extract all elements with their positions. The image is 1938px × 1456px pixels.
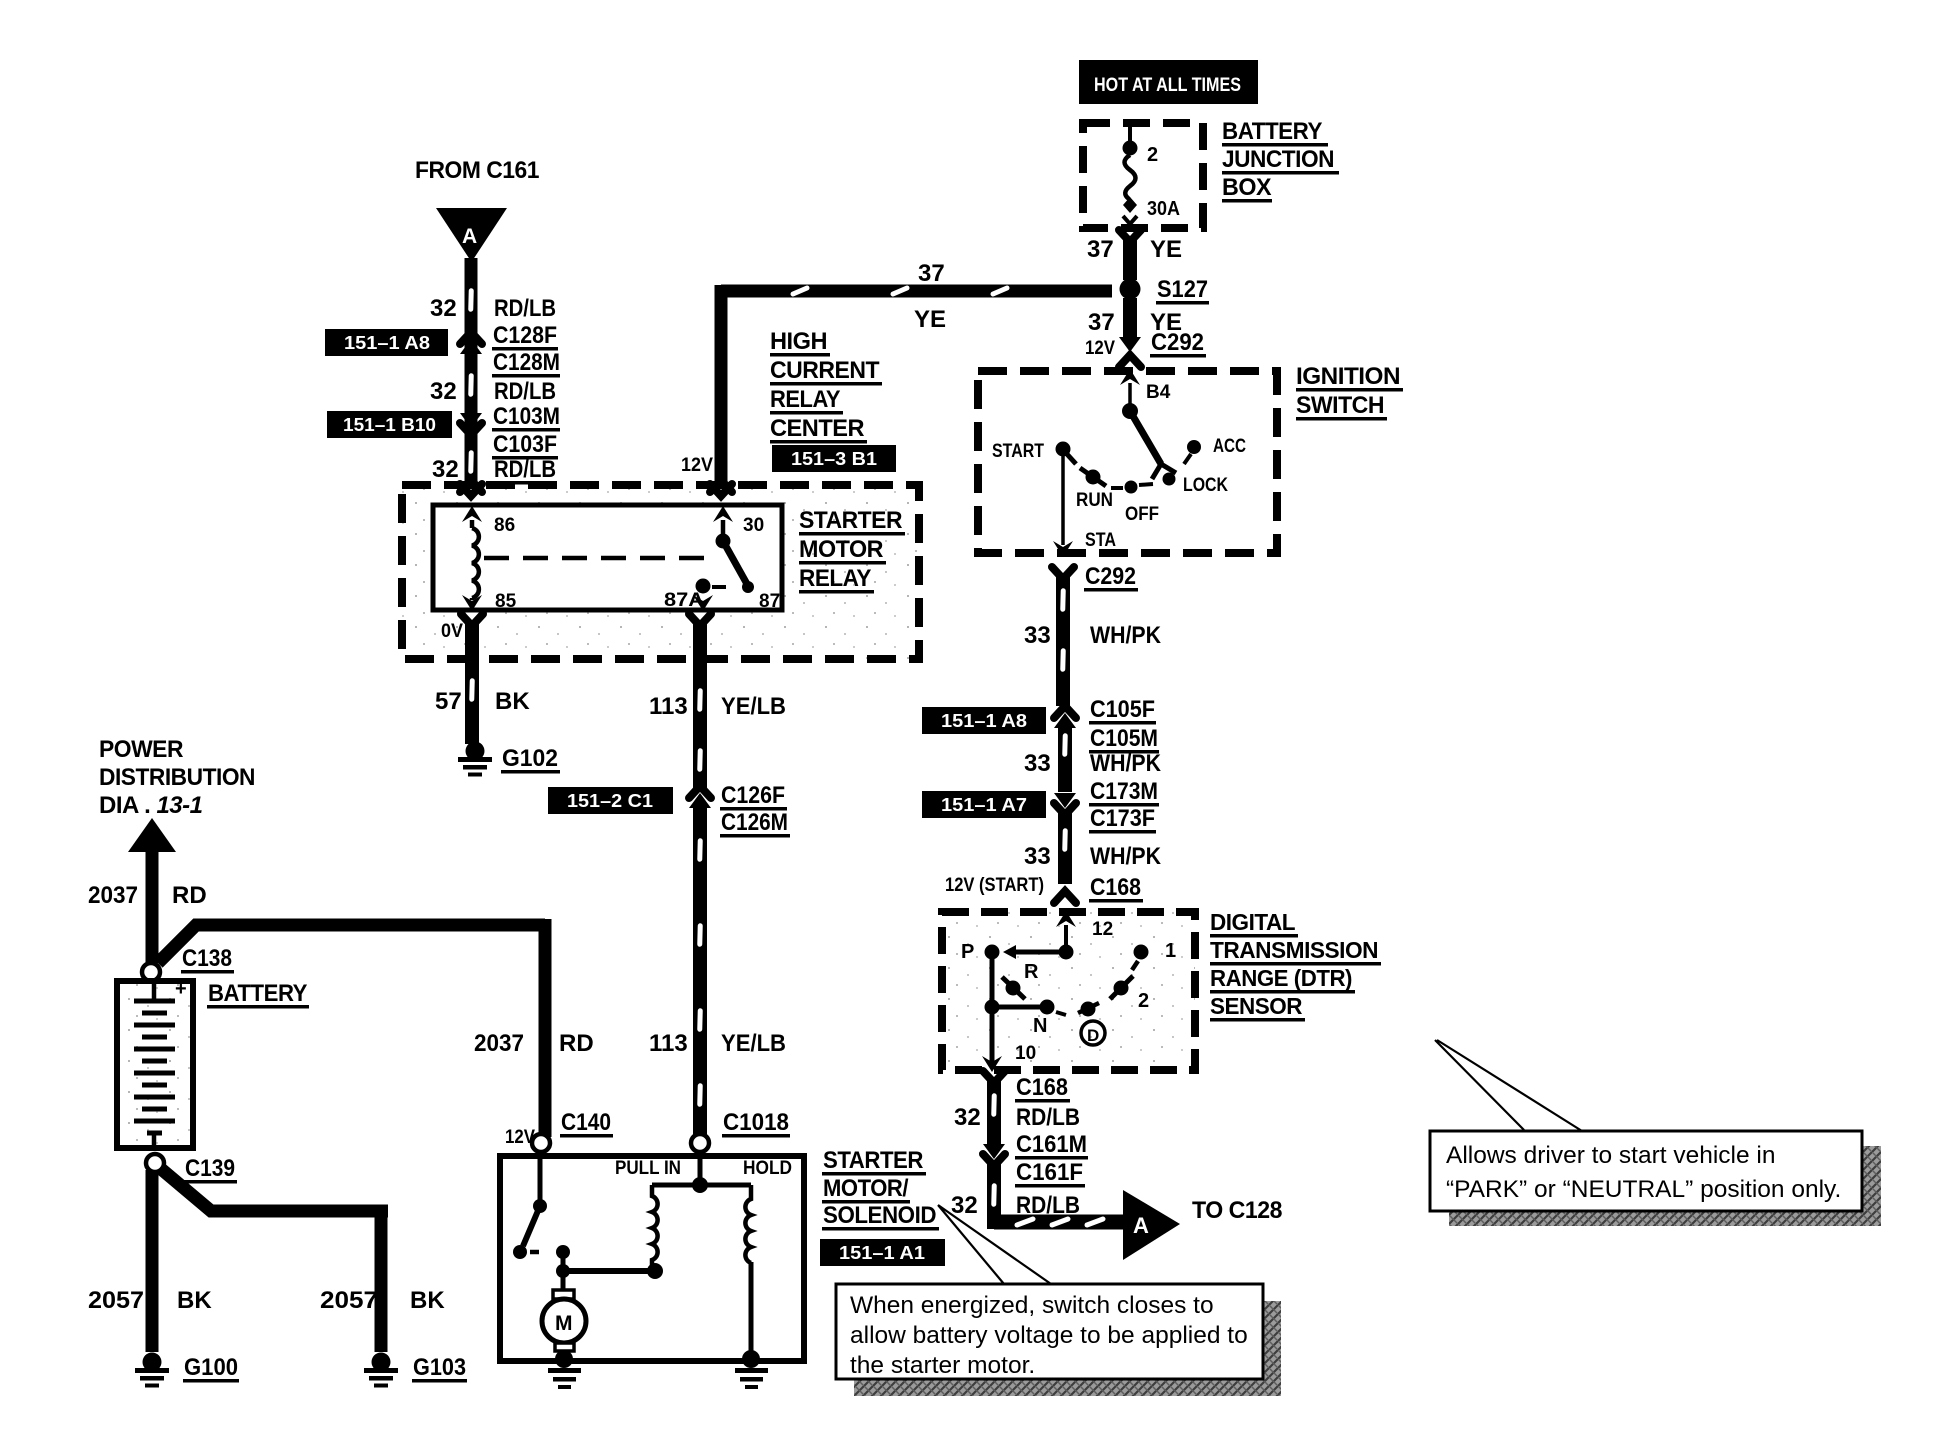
- svg-text:151–1 A7: 151–1 A7: [941, 795, 1027, 815]
- top horizontal + C1018 drop: [652, 1183, 751, 1188]
- svg-text:37: 37: [1087, 236, 1114, 263]
- ACC contact: [1187, 440, 1201, 454]
- svg-text:HOLD: HOLD: [743, 1158, 792, 1179]
- svg-text:30A: 30A: [1147, 198, 1180, 220]
- node C1018: [691, 1134, 709, 1152]
- HOT AT ALL TIMES label box: [1079, 60, 1258, 104]
- connector C173M/C173F: [1054, 793, 1076, 808]
- svg-text:BK: BK: [177, 1287, 212, 1314]
- svg-text:FROM C161: FROM C161: [415, 157, 539, 184]
- svg-text:SWITCH: SWITCH: [1296, 392, 1384, 419]
- callout: allows driver: [1430, 1040, 1881, 1226]
- dashed mech link solenoid: [548, 1251, 556, 1253]
- svg-text:2037: 2037: [474, 1030, 524, 1057]
- svg-text:113: 113: [649, 1030, 688, 1057]
- connector C105F/C105M: [1054, 706, 1076, 718]
- svg-text:STARTER: STARTER: [823, 1147, 923, 1174]
- svg-text:IGNITION: IGNITION: [1296, 363, 1400, 390]
- svg-text:RD/LB: RD/LB: [494, 295, 556, 322]
- svg-text:CURRENT: CURRENT: [770, 357, 880, 384]
- svg-text:C105F: C105F: [1090, 696, 1155, 723]
- ref box 151-1 A7: [922, 791, 1046, 818]
- svg-text:12: 12: [1092, 919, 1113, 940]
- svg-text:allow battery voltage to be ap: allow battery voltage to be applied to: [850, 1322, 1248, 1349]
- svg-text:the starter motor.: the starter motor.: [850, 1352, 1035, 1379]
- svg-text:57: 57: [435, 688, 462, 715]
- svg-text:OFF: OFF: [1125, 504, 1159, 525]
- POWER DISTRIBUTION DIA. 13-1 title: [99, 736, 255, 819]
- ground G103: [364, 1353, 398, 1388]
- svg-text:HIGH: HIGH: [770, 328, 827, 355]
- svg-text:SOLENOID: SOLENOID: [823, 1202, 936, 1229]
- svg-text:BK: BK: [495, 688, 530, 715]
- svg-text:33: 33: [1024, 750, 1051, 777]
- svg-text:BOX: BOX: [1222, 174, 1271, 201]
- HIGH CURRENT RELAY CENTER title: [770, 328, 882, 444]
- wire corner to arrow A: [994, 1215, 1124, 1230]
- arrow up to power distribution: [128, 818, 176, 852]
- ref box 151-2 C1: [548, 787, 673, 814]
- svg-text:G100: G100: [184, 1354, 238, 1381]
- svg-text:113: 113: [649, 693, 688, 720]
- svg-text:32: 32: [430, 295, 457, 322]
- relay switch 30/87/87A: [693, 506, 754, 611]
- svg-text:87: 87: [759, 591, 780, 612]
- svg-text:LOCK: LOCK: [1183, 475, 1228, 496]
- svg-text:33: 33: [1024, 622, 1051, 649]
- solenoid switch: [538, 1152, 543, 1203]
- svg-text:N: N: [1033, 1015, 1047, 1037]
- BATTERY JUNCTION BOX title: [1222, 118, 1339, 203]
- connector node C138: [142, 963, 160, 981]
- svg-text:When energized, switch closes: When energized, switch closes to: [850, 1292, 1214, 1319]
- svg-text:C161M: C161M: [1016, 1131, 1087, 1158]
- svg-text:151–3 B1: 151–3 B1: [791, 449, 877, 469]
- wire triangle to relay: [465, 258, 478, 488]
- svg-text:RD/LB: RD/LB: [1016, 1104, 1080, 1131]
- wire to pull-in junction: [563, 1268, 655, 1274]
- 2 contact: [1114, 981, 1129, 996]
- STARTER MOTOR/SOLENOID title: [822, 1147, 939, 1231]
- DTR pin 12 arrow: [1056, 911, 1076, 927]
- wire 37 YE horizontal to S127: [721, 285, 1112, 298]
- svg-text:BK: BK: [410, 1287, 445, 1314]
- callout: when energized: [836, 1205, 1281, 1396]
- svg-text:151–2 C1: 151–2 C1: [567, 791, 653, 811]
- svg-text:RELAY: RELAY: [770, 386, 840, 413]
- ignition switch dashed box: [978, 371, 1277, 553]
- motor M: [561, 1276, 566, 1291]
- svg-text:C140: C140: [561, 1109, 611, 1136]
- svg-text:STA: STA: [1085, 530, 1116, 551]
- svg-text:DIA . 13-1: DIA . 13-1: [99, 792, 203, 819]
- svg-text:C168: C168: [1090, 874, 1141, 901]
- svg-text:0V: 0V: [441, 621, 463, 642]
- svg-text:START: START: [992, 441, 1044, 462]
- svg-text:C292: C292: [1151, 329, 1204, 356]
- svg-text:MOTOR/: MOTOR/: [823, 1175, 909, 1202]
- ref box 151-3 B1: [772, 445, 896, 472]
- node C140: [532, 1134, 550, 1152]
- svg-text:C138: C138: [182, 945, 232, 972]
- relay inner box: [433, 505, 782, 610]
- connector C292 below ignition: [1052, 567, 1074, 579]
- battery box: [117, 981, 193, 1148]
- svg-text:G102: G102: [502, 745, 558, 772]
- svg-text:10: 10: [1015, 1043, 1036, 1064]
- svg-text:151–1 A8: 151–1 A8: [344, 333, 430, 353]
- svg-text:C173F: C173F: [1090, 805, 1155, 832]
- svg-text:2037: 2037: [88, 882, 138, 909]
- wire 113 YE/LB from relay pin 87A: [689, 614, 711, 626]
- svg-text:12V: 12V: [505, 1127, 535, 1148]
- svg-text:TO C128: TO C128: [1192, 1197, 1282, 1224]
- svg-text:32: 32: [951, 1192, 978, 1219]
- svg-text:12V: 12V: [1085, 338, 1115, 359]
- svg-text:WH/PK: WH/PK: [1090, 622, 1162, 649]
- ignition rotor pivot: [1122, 403, 1138, 419]
- connector C168 below DTR: [983, 1071, 1005, 1083]
- svg-text:D: D: [1087, 1026, 1099, 1045]
- svg-text:G103: G103: [413, 1354, 466, 1381]
- fuse 30A pin 2: [1123, 119, 1138, 224]
- svg-text:C103M: C103M: [493, 403, 560, 430]
- svg-text:1: 1: [1165, 940, 1176, 962]
- ground G102: [458, 742, 492, 777]
- svg-text:C139: C139: [185, 1155, 235, 1182]
- svg-text:30: 30: [743, 515, 764, 536]
- svg-text:C128M: C128M: [493, 349, 560, 376]
- svg-text:YE/LB: YE/LB: [721, 1030, 786, 1057]
- svg-text:87A: 87A: [664, 590, 704, 611]
- relay coil 86/85: [462, 506, 482, 611]
- N contact: [1040, 1000, 1055, 1015]
- svg-text:+: +: [175, 978, 187, 1000]
- svg-text:RD: RD: [559, 1030, 594, 1057]
- svg-text:SENSOR: SENSOR: [1210, 993, 1303, 1019]
- svg-text:32: 32: [430, 378, 457, 405]
- svg-text:86: 86: [494, 515, 515, 536]
- wire junction box to S127: [1119, 230, 1141, 242]
- P down to junction: [990, 952, 995, 1062]
- svg-text:A: A: [1133, 1213, 1149, 1238]
- connector node C139: [146, 1154, 164, 1172]
- svg-text:RD/LB: RD/LB: [494, 378, 556, 405]
- svg-text:DISTRIBUTION: DISTRIBUTION: [99, 764, 255, 791]
- svg-text:JUNCTION: JUNCTION: [1222, 146, 1334, 173]
- svg-text:STARTER: STARTER: [799, 507, 902, 534]
- triangle A (to C128): [1123, 1190, 1180, 1260]
- svg-text:85: 85: [495, 591, 517, 612]
- triangle A (from C161): [436, 208, 507, 262]
- svg-text:YE: YE: [914, 306, 946, 333]
- motor ground bars: [548, 1368, 581, 1389]
- svg-text:C128F: C128F: [493, 322, 557, 349]
- ref box 151-1 A8 (right): [922, 707, 1046, 734]
- ignition blade to LOCK: [1130, 411, 1161, 464]
- svg-text:C126M: C126M: [721, 809, 788, 836]
- svg-text:PULL IN: PULL IN: [615, 1158, 681, 1179]
- connector C126F/C126M: [689, 786, 711, 798]
- svg-text:2: 2: [1147, 144, 1158, 166]
- circled D: [1081, 1021, 1105, 1045]
- splice S127: [1120, 279, 1141, 300]
- svg-text:2057: 2057: [88, 1287, 144, 1314]
- RUN contact: [1086, 470, 1101, 485]
- svg-text:C173M: C173M: [1090, 778, 1158, 805]
- edge connectors at relay top: [460, 480, 482, 496]
- D contact: [1081, 1002, 1096, 1017]
- svg-text:CENTER: CENTER: [770, 415, 864, 442]
- DTR sensor dashed box: [942, 912, 1195, 1070]
- svg-text:B4: B4: [1146, 382, 1171, 403]
- DIGITAL TRANSMISSION RANGE (DTR) SENSOR title: [1210, 909, 1381, 1022]
- svg-text:Allows driver to start vehicle: Allows driver to start vehicle in: [1446, 1142, 1776, 1169]
- ref box 151-1 B10: [327, 411, 452, 438]
- svg-text:TRANSMISSION: TRANSMISSION: [1210, 937, 1378, 963]
- svg-text:32: 32: [954, 1104, 981, 1131]
- svg-text:DIGITAL: DIGITAL: [1210, 909, 1295, 935]
- hold ground bars: [735, 1368, 768, 1389]
- IGNITION SWITCH title: [1296, 363, 1403, 421]
- wire C126M to C1018: [693, 806, 707, 1136]
- wire C138 up-right then to C140: [158, 925, 545, 963]
- svg-text:“PARK” or “NEUTRAL” position o: “PARK” or “NEUTRAL” position only.: [1446, 1176, 1841, 1203]
- svg-text:RD: RD: [172, 882, 207, 909]
- svg-text:C161F: C161F: [1016, 1159, 1083, 1186]
- DTR rotor dot: [1059, 945, 1074, 960]
- svg-text:S127: S127: [1157, 276, 1208, 303]
- svg-text:C126F: C126F: [721, 782, 785, 809]
- pull-in coil: [652, 1185, 658, 1265]
- svg-text:WH/PK: WH/PK: [1090, 750, 1162, 777]
- svg-text:C168: C168: [1016, 1074, 1068, 1101]
- svg-text:151–1 B10: 151–1 B10: [343, 415, 436, 435]
- svg-text:P: P: [961, 941, 974, 963]
- svg-text:2057: 2057: [320, 1287, 378, 1314]
- connector C128F/C128M: [460, 332, 482, 344]
- svg-text:ACC: ACC: [1213, 436, 1246, 457]
- svg-text:RELAY: RELAY: [799, 565, 871, 592]
- svg-text:WH/PK: WH/PK: [1090, 843, 1162, 870]
- LOCK contact: [1163, 473, 1176, 486]
- svg-text:C292: C292: [1085, 563, 1136, 590]
- connector C161M/C161F: [983, 1144, 1005, 1159]
- pin B4 arrow: [1120, 369, 1140, 385]
- line to P with arrow: [1014, 950, 1059, 955]
- wire slashes (texture): [467, 291, 1069, 1204]
- wire 57 BK from relay pin 85: [461, 614, 483, 626]
- hold coil: [745, 1185, 751, 1263]
- svg-text:C1018: C1018: [723, 1109, 789, 1136]
- wires from C139: [146, 1170, 159, 1352]
- STARTER MOTOR RELAY title: [799, 507, 905, 594]
- solenoid box: [500, 1156, 804, 1361]
- starter motor relay outer dashed box: [402, 485, 919, 659]
- svg-text:HOT AT ALL TIMES: HOT AT ALL TIMES: [1094, 75, 1241, 96]
- svg-text:M: M: [555, 1312, 573, 1335]
- svg-text:RANGE (DTR): RANGE (DTR): [1210, 965, 1352, 991]
- svg-text:12V: 12V: [681, 455, 713, 476]
- R contact: [1006, 981, 1021, 996]
- START contact: [1056, 442, 1071, 457]
- svg-text:A: A: [462, 225, 477, 248]
- svg-text:12V (START): 12V (START): [945, 875, 1044, 896]
- 1 contact: [1134, 945, 1149, 960]
- ground G100: [135, 1353, 169, 1388]
- svg-text:YE/LB: YE/LB: [721, 693, 786, 720]
- svg-text:37: 37: [1088, 309, 1115, 336]
- relay mechanical dashed link: [484, 556, 718, 561]
- connector C292 (ignition top): [1119, 337, 1141, 352]
- svg-text:RUN: RUN: [1076, 490, 1113, 511]
- svg-text:32: 32: [432, 456, 459, 483]
- connector C168 (DTR top): [1054, 891, 1076, 903]
- ref box 151-1 A8: [325, 329, 448, 356]
- ref box 151-1 A1: [820, 1239, 945, 1266]
- svg-text:YE: YE: [1150, 236, 1182, 263]
- svg-text:POWER: POWER: [99, 736, 183, 763]
- connector C103M/C103F: [460, 413, 482, 428]
- svg-text:151–1 A8: 151–1 A8: [941, 711, 1027, 731]
- wire S127 to C292: [1123, 298, 1137, 338]
- battery junction box (dashed): [1083, 123, 1203, 228]
- svg-text:BATTERY: BATTERY: [208, 980, 307, 1007]
- svg-text:33: 33: [1024, 843, 1051, 870]
- svg-text:C105M: C105M: [1090, 725, 1158, 752]
- svg-text:151–1 A1: 151–1 A1: [839, 1243, 925, 1263]
- svg-text:BATTERY: BATTERY: [1222, 118, 1322, 145]
- svg-text:2: 2: [1138, 990, 1149, 1012]
- svg-text:C103F: C103F: [493, 431, 557, 458]
- svg-text:R: R: [1024, 961, 1039, 983]
- svg-text:MOTOR: MOTOR: [799, 536, 883, 563]
- OFF contact: [1125, 481, 1138, 494]
- battery plates: [134, 981, 175, 1148]
- svg-text:37: 37: [918, 260, 945, 287]
- STA pin wire: [1061, 456, 1065, 545]
- svg-text:RD/LB: RD/LB: [494, 456, 556, 483]
